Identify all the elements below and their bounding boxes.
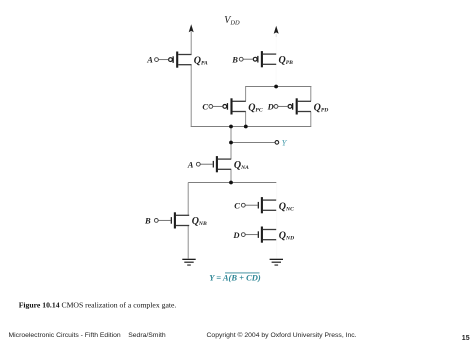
svg-text:D: D: [232, 230, 239, 240]
svg-text:A: A: [146, 55, 153, 65]
svg-text:Y: Y: [282, 138, 288, 148]
svg-text:B: B: [231, 54, 238, 64]
svg-text:C: C: [234, 201, 240, 211]
svg-text:Y = A(B + CD): Y = A(B + CD): [209, 272, 261, 282]
svg-text:D: D: [267, 102, 274, 112]
svg-text:QNC: QNC: [279, 201, 294, 212]
svg-text:B: B: [144, 216, 151, 226]
svg-text:Copyright © 2004 by Oxford Uni: Copyright © 2004 by Oxford University Pr…: [207, 331, 357, 339]
svg-text:QPB: QPB: [279, 55, 294, 66]
svg-text:VDD: VDD: [224, 15, 240, 27]
svg-text:QPC: QPC: [248, 102, 263, 113]
svg-text:Microelectronic Circuits - Fif: Microelectronic Circuits - Fifth Edition…: [9, 332, 166, 339]
svg-text:QPA: QPA: [194, 55, 208, 66]
svg-text:C: C: [202, 102, 208, 112]
svg-text:QNA: QNA: [234, 160, 249, 171]
svg-text:15: 15: [462, 335, 470, 342]
svg-text:Figure 10.14 CMOS realization: Figure 10.14 CMOS realization of a compl…: [19, 300, 177, 309]
svg-text:QND: QND: [279, 230, 294, 241]
svg-text:A: A: [187, 159, 194, 169]
svg-text:QPD: QPD: [314, 102, 329, 113]
svg-text:QNB: QNB: [192, 216, 207, 227]
